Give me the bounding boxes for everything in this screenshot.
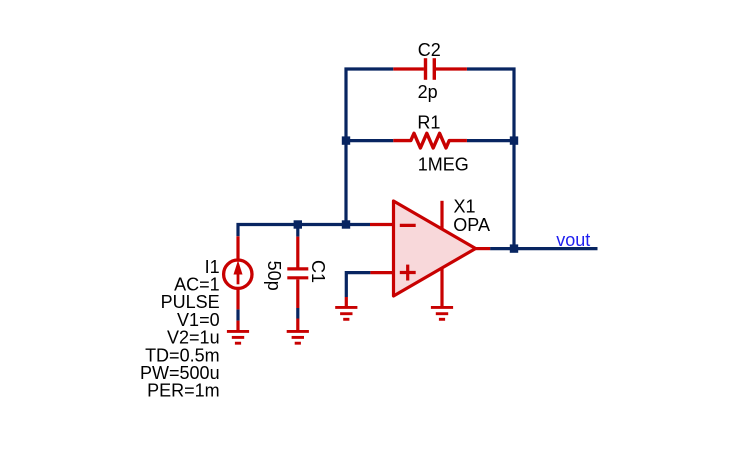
svg-text:OPA: OPA xyxy=(453,215,490,235)
svg-text:R1: R1 xyxy=(417,113,440,133)
svg-text:2p: 2p xyxy=(418,82,438,102)
svg-text:PER=1m: PER=1m xyxy=(147,381,220,401)
svg-text:1MEG: 1MEG xyxy=(418,154,469,174)
svg-text:50p: 50p xyxy=(264,261,284,291)
svg-text:C2: C2 xyxy=(418,40,441,60)
svg-text:C1: C1 xyxy=(308,260,328,283)
svg-text:X1: X1 xyxy=(454,196,476,216)
svg-text:vout: vout xyxy=(556,230,590,250)
